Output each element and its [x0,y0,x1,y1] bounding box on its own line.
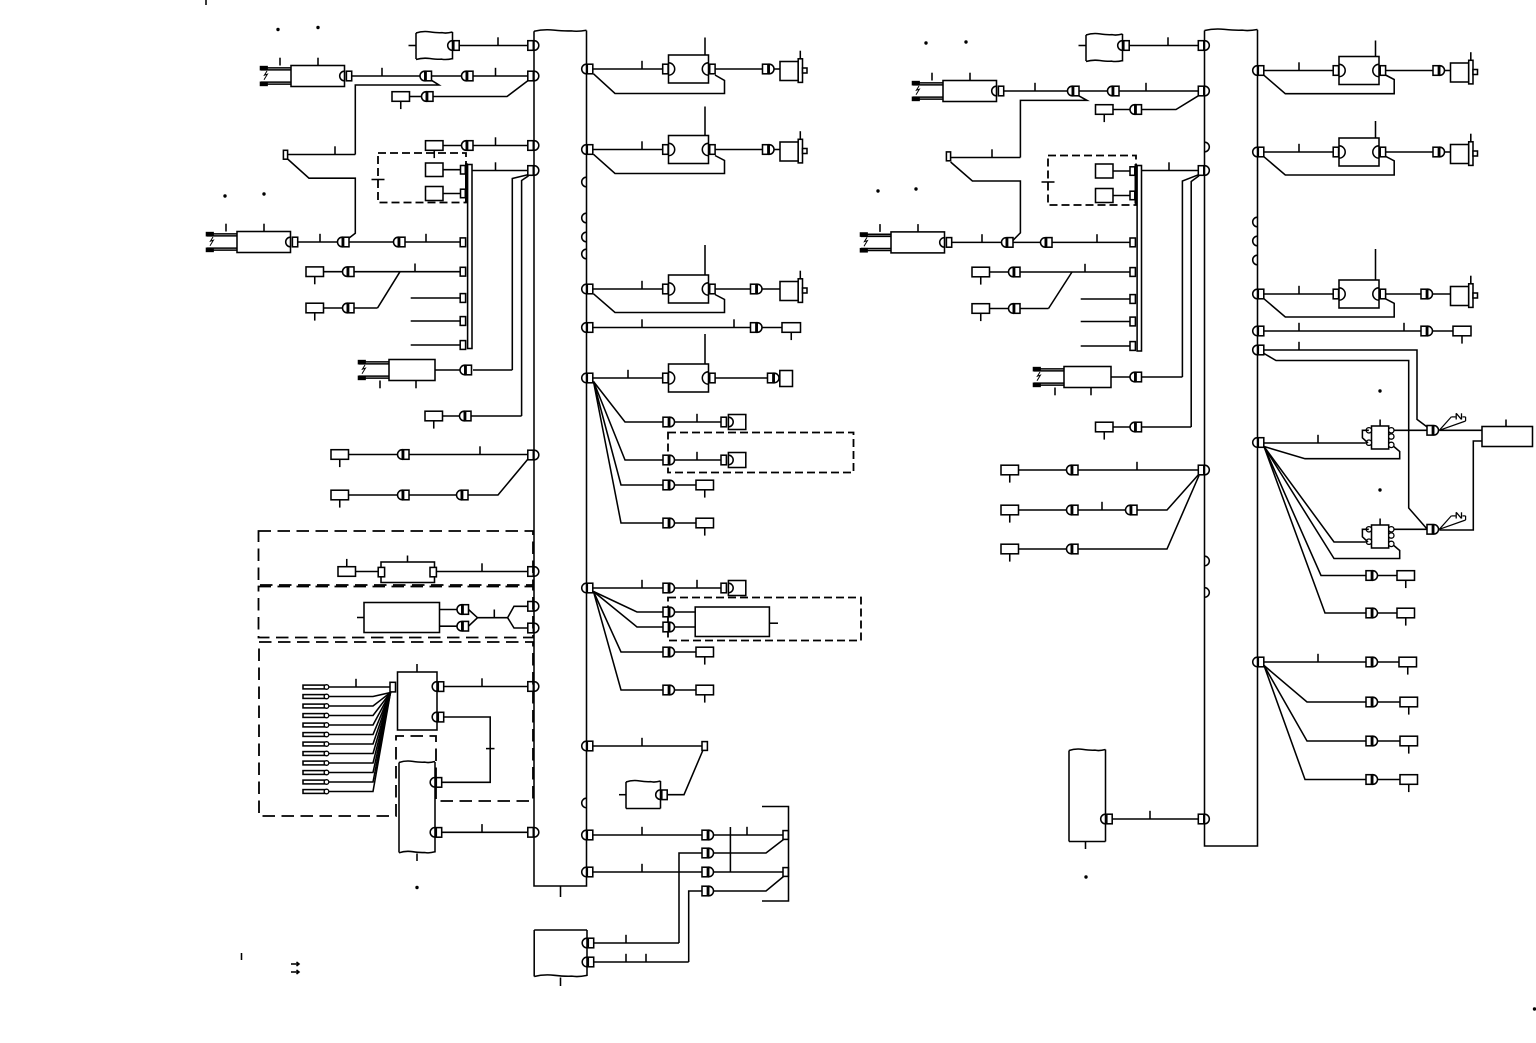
fan wire F5 [594,592,664,613]
wire P51 to S21 [1378,612,1397,614]
terminal U2 [461,189,466,198]
branch wire to node V1 [355,80,439,154]
tick on D1 edge [372,179,385,181]
connector pair P48 [1427,426,1432,436]
connector pair P16 [663,417,668,427]
return wire loop row3 [594,294,725,313]
connector J1-2 [587,145,593,155]
connector J1-G [528,602,534,612]
splice S25 [1400,775,1418,785]
wire P25 to T7 [714,834,783,836]
terminal U4 [1130,191,1135,200]
wire J2-2 to load L7 [1264,151,1334,153]
splice S14 [972,304,990,314]
connector pair P47 [1067,544,1072,554]
unit U4 [1096,189,1114,203]
receptacle bump [582,232,587,242]
wire P11 to motor M3 [763,288,781,290]
sub-bus SB1 [468,165,472,349]
wire P45 to P46 [1078,509,1125,511]
module A2 stub [619,794,626,796]
wire A3-2 up [594,961,689,963]
relay K1 [261,67,291,69]
wire P56 to J1-E [409,454,528,456]
wire J2-7 to P52 [1264,661,1367,663]
wire J1-5 to load L4 [593,377,663,379]
twisted pair split [508,606,528,617]
load L3 (lamp unit) [663,284,668,294]
dashed enclosure D3 [668,598,861,641]
connector J1-I [528,682,534,692]
motor M2 [780,142,798,161]
splice S16 [1096,422,1114,432]
connector pair P33 [1108,86,1113,96]
connector J1-7 [587,741,593,751]
connector pair P25 [702,830,707,840]
dashed enclosure D2 [668,433,854,473]
control unit ECU1 [695,607,769,637]
relay K5 [861,233,891,235]
connector J1-A [528,41,534,51]
connector pair P20 [663,583,668,593]
connector pair P40 [1421,289,1426,299]
splice S10 [696,685,714,695]
splice S18 [1001,505,1019,515]
terminal T18 [946,152,950,161]
terminal T17 [283,150,287,159]
connector pair P37 [1041,238,1046,248]
connector pair P30 [457,621,462,631]
connector pair P29 [457,605,462,615]
connector pair P23 [663,647,668,657]
splice S15 [1453,326,1471,336]
wire P28 left leg [689,891,702,962]
wire P14 to riser W2 [471,415,522,417]
terminal T11 [1130,268,1135,277]
connector pair P31 [1433,66,1438,76]
connector pair P24 [663,685,668,695]
twisted pair merge [469,610,478,627]
branch wire to node V2 [1020,96,1087,158]
splice S26 [331,450,349,460]
terminal T12 [1130,295,1135,304]
wire T18 jog to K5 row [951,162,1021,242]
receptacle bump [1205,142,1210,152]
wire P58 to J1-E [468,459,528,495]
terminal T3 [460,294,465,303]
wire P16 to H2 [675,421,721,423]
connector pair P36 [1002,238,1007,248]
connector J2-2 [1258,147,1264,157]
wire K2 to P7 [298,241,337,243]
wire P54 to S24 [1378,740,1400,742]
vertical net wire [729,827,731,872]
connector A4-2 [430,828,435,838]
terminator X2 [1439,516,1451,529]
connector JB1-2 [432,712,437,722]
terminal U3 [1130,167,1135,176]
motor M6 [1451,287,1469,306]
receptacle bump [1253,255,1258,265]
wire K3 to P13 [435,369,460,371]
wire A4 to J1-K [442,831,528,833]
splice S6 [425,411,443,421]
wire P2 to P3 [432,75,462,77]
module A3 stub [560,978,562,987]
connector A4-1 [430,778,435,788]
terminal T5 [460,341,465,350]
wire ECU2-a [440,609,457,611]
connector pair P5 [763,145,768,155]
connector pair P14 [460,411,465,421]
sensor block SC1 [1372,426,1389,449]
wire S19 to P47 [1019,548,1067,550]
terminal T8 [783,868,788,877]
load L4 (lamp unit) [663,373,668,383]
connector pair P21 [663,607,668,617]
wire ECU2-b [440,625,457,627]
wire J1-8 to T7 [593,834,702,836]
splice S19 [1001,544,1019,554]
wire P20 to H4 [675,587,721,589]
connector pair P52 [1366,657,1371,667]
connector pair P27 [702,867,707,877]
sub-bus SB2 [1137,166,1141,352]
relay K3 [359,361,389,363]
connector pair P4 [421,92,426,102]
connector pair P39 [1009,304,1014,314]
wire P3 to J1-B [473,75,528,77]
fan wire F6 [594,592,664,628]
fan wire F13 [1264,666,1366,780]
wire P26 to T7 [714,840,784,854]
fan wire F11 [1264,666,1366,703]
connector pair P54 [1366,736,1371,746]
load L1 (lamp unit) [663,64,668,74]
wire P9 to SB1 [354,271,460,273]
control unit ECU2 [364,603,440,633]
dashed enclosure D1 [378,153,466,203]
wire P10 stub [354,307,378,309]
wire P19 to S8 [675,522,696,524]
wire K6 to P42 [1111,376,1130,378]
connector JB1-1 [432,682,437,692]
connector housing H1 [780,371,793,387]
connector pair P22 [663,622,668,632]
relay K6 [1034,368,1064,370]
connector strip bar R [1135,165,1137,204]
connector J1-3 [587,284,593,294]
connector J1-E [528,450,534,460]
bracket frame [762,807,789,902]
return wire loop row1 [594,74,725,94]
connector on B2 [1101,814,1106,824]
wire P50 to S20 [1378,575,1397,577]
connector pair P57 [398,490,403,500]
wire L7 to P35 [1386,151,1433,153]
load unit L5 [381,562,435,583]
terminal T6 [702,742,707,751]
reference dots [276,28,279,31]
wire P46 to J2-E [1137,475,1199,511]
fan wire F9 [1264,447,1366,576]
wire P5 to motor M2 [775,149,781,151]
sensor block SC2 [1372,525,1389,548]
fan wire to SC2 [1264,447,1366,543]
wire SC1 return [1264,447,1400,459]
wire SC2 out [1394,528,1427,530]
connector on A2 [656,790,661,800]
wire ECU3 to P49 [1439,441,1482,530]
dashed enclosure D5 [259,587,534,638]
splice S5 [782,323,801,333]
load L8 (lamp unit) [1333,289,1338,299]
connector J2-D [1198,166,1204,176]
connector housing H2 [721,417,726,427]
connector pair P28 [702,886,707,896]
riser wire W1 [512,175,528,370]
relay K2 [207,233,237,235]
terminator X1 [1439,417,1451,430]
receptacle bump [582,177,587,187]
wire SC2 return [1264,447,1400,559]
wire P22 to ECU1 [675,626,696,628]
wire B2 to J2-F [1112,818,1198,820]
wire SB1 to J1-D [472,170,528,172]
splice S4 [306,303,324,313]
wire P12 to S5 [763,327,783,329]
receptacle bump [582,213,587,223]
wire K1 to P2 [352,75,420,77]
connector on B1 [1118,41,1123,51]
connector pair P13 [460,365,465,375]
wire L6 to P31 [1386,70,1433,72]
module A2 (torn-edge box) [626,781,661,783]
connector pair P53 [1366,697,1371,707]
wire P41 to S15 [1433,330,1453,332]
riser wire W4 [1191,176,1199,427]
connector pair P58 [457,490,462,500]
wire J1-7 to T6 [593,745,702,747]
wire P31 to motor M4 [1445,70,1451,72]
receptacle bump [1205,588,1210,598]
connector J2-A [1198,41,1204,51]
connector pair P43 [1130,422,1135,432]
connector pair P12 [751,323,756,333]
wire P36 to P37 [1013,241,1040,243]
wire J1-2 to load L2 [593,149,663,151]
wire P18 to S7 [675,484,696,486]
bus J1 bottom stub [560,886,562,897]
connector pair P41 [1421,326,1426,336]
connector pair P51 [1366,608,1371,618]
wire SB2 to J2-D [1142,170,1199,172]
connector pair P56 [398,450,403,460]
connector J1-6 [587,583,593,593]
wire J1-4 to P12 [593,327,751,329]
splice S20 [1397,571,1415,581]
control unit ECU3 [1482,427,1533,447]
splice S7 [696,480,714,490]
wire K4 to P32 [1004,90,1067,92]
bus bar J2 (right harness connector strip) [1205,29,1258,31]
wire A2 to T6 [667,751,703,795]
reference dots R [876,189,879,192]
connector pair P32 [1068,86,1073,96]
module B1 (torn-edge box) [1086,34,1123,36]
connector pair P11 [751,284,756,294]
connector J1-8 [587,830,593,840]
wire JB1 to J1-I [444,686,528,688]
connector pair P34 [1130,105,1135,115]
connector J2-B [1198,86,1204,96]
connector pair P8 [393,237,398,247]
wire S6 to P14 [443,415,460,417]
wire L2 to P5 [715,149,762,151]
wire S27 to P57 [349,494,398,496]
wire P17 to H3 [675,459,721,461]
return wire loop row1R [1264,75,1394,94]
wire J2-1 to load L6 [1264,70,1334,72]
motor M3 [780,282,798,301]
unit U2 [426,187,444,201]
riser wire W3 [1182,175,1198,377]
connector housing H3 [721,455,726,465]
wire stub to SB1 #3 [411,344,460,346]
wire S16 to P43 [1113,426,1130,428]
wire P27 to T8 [714,871,783,873]
wire J1-9 to T8 [593,871,702,873]
splice S17 [1001,465,1019,475]
wire T18 [951,157,1021,159]
motor M1 [780,62,798,81]
wire S13 to P38 [990,271,1009,273]
branch diagonal R [1049,272,1073,309]
connector pair P44 [1067,465,1072,475]
connector J2-5 [1258,345,1264,355]
wire L5 to J1-F [436,571,527,573]
connector pair P46 [1126,505,1131,515]
wire A1 to J1-A [459,45,528,47]
receptacle bump [1205,556,1210,566]
connector J2-6 [1258,438,1264,448]
connector pair P35 [1433,147,1438,157]
tick on D7 edge [1042,181,1055,183]
module B2 stub [1085,842,1087,850]
connector pair P3 [461,71,466,81]
fan wire F8 [594,592,664,691]
connector pair P6 [461,141,466,151]
wire stub to SB2 #2 [1081,321,1130,323]
unit U1 [426,163,444,177]
wire P26 left leg [679,853,702,943]
module A3 (torn-edge box) [534,929,587,931]
wire stub to SB1 #2 [411,320,460,322]
wire S17 to P44 [1019,469,1067,471]
connector on A1 [448,41,453,51]
receptacle bump [582,798,587,808]
wire P33 to J2-B [1119,90,1198,92]
fan wire F3 [594,382,664,486]
wire L4 to P15 [715,377,767,379]
connector J1-D [528,166,534,176]
splice S12 [1096,105,1114,115]
connector pair P7 [337,237,342,247]
wire P7 to P8 [349,241,393,243]
connector pair P10 [343,303,348,313]
junction terminal T9 [390,682,396,692]
splice S24 [1400,736,1418,746]
module A4 (torn-edge box) [399,761,435,763]
wire J2-5 branch B [1264,354,1428,530]
connector housing H4 [721,583,726,593]
load L2 (lamp unit) [663,145,668,155]
wire P35 to motor M5 [1445,151,1451,153]
module A1 stub [409,45,417,47]
connector J2-E [1198,465,1204,475]
wire S11 to L5 [356,571,381,573]
wire U1 to strip [443,169,461,171]
terminal T2 [460,267,465,276]
connector J1-5 [587,373,593,383]
connector strip bar [465,164,467,203]
wire S3 to P9 [324,271,343,273]
wire L8 to P40 [1386,293,1421,295]
wire J2-3 to load L8 [1264,293,1334,295]
connector pair P42 [1130,372,1135,382]
pin wires PG1 [329,686,390,688]
splice S9 [696,647,714,657]
return wire loop row3R [1264,299,1394,317]
wire P13 to riser W1 [473,369,512,371]
wire P23 to S9 [675,651,696,653]
splice S27 [331,490,349,500]
connector pair P2 [420,71,425,81]
module B1 stub [1079,45,1087,47]
splice S21 [1397,608,1415,618]
wire L3 to P11 [715,288,750,290]
wire P34 to J2-B [1142,96,1199,110]
connector J1-H [528,623,534,633]
terminal T13 [1130,317,1135,326]
fan wire F12 [1264,666,1366,742]
wire L1 to P1 [715,68,762,70]
connector J2-1 [1258,66,1264,76]
wire P42 to riser W3 [1142,376,1183,378]
receptacle bump [582,249,587,259]
wire P48 to ECU3 [1439,429,1482,431]
wire P43 to riser W4 [1142,426,1192,428]
connector A3-2 [582,957,587,967]
fan wire F1 [594,382,664,423]
pin group PG1 [303,685,325,689]
wire T17 jog to K2 row [288,159,356,238]
riser wire W2 [522,176,529,416]
connector pair P55 [1366,775,1371,785]
terminal T7 [783,831,788,840]
wire P32 to P33 [1079,90,1107,92]
connector pair P1 [763,64,768,74]
connector pair P45 [1067,505,1072,515]
wire P1 to motor M1 [775,68,781,70]
connector pair P9 [343,267,348,277]
junction box JB1 [398,672,438,730]
connector J1-9 [587,867,593,877]
connector J1-1 [587,64,593,74]
splice S11 [338,567,356,577]
connector J1-B [528,71,534,81]
wire stub to SB2 #3 [1081,345,1130,347]
